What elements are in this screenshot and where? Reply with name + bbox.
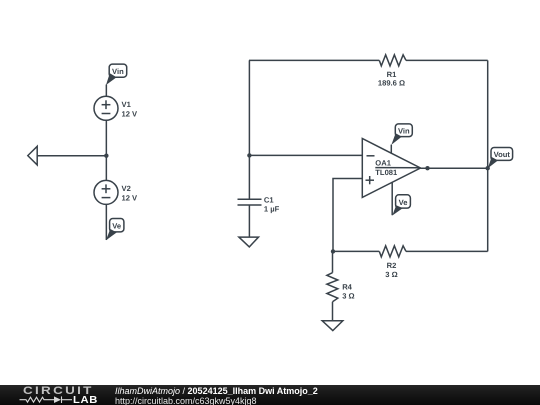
label OA1 name [375,159,398,178]
resistor R1 [379,55,406,66]
node junction left [104,154,108,158]
svg-text:Vout: Vout [494,150,511,159]
svg-text:OA1: OA1 [375,159,391,168]
wire op-amp output [421,167,488,169]
svg-text:Vin: Vin [398,126,410,135]
svg-text:12 V: 12 V [122,194,139,203]
node Vin flag (left) [106,64,127,85]
resistor R4 [327,273,338,302]
wire to inverting input [249,154,362,156]
svg-text:3 Ω: 3 Ω [385,270,397,279]
voltage source V2 [94,180,118,204]
resistor R2 [379,246,406,257]
svg-text:TL081: TL081 [375,168,398,177]
wire R4 to ground [332,302,334,321]
svg-text:12 V: 12 V [122,110,139,119]
footer url line [115,396,257,405]
CircuitLab logo text LAB [73,395,98,405]
svg-text:Vin: Vin [112,67,124,76]
op-amp V- supply pin [391,182,393,215]
label V2 value [122,184,139,203]
ground (R4) [322,321,343,331]
svg-text:R1: R1 [387,70,397,79]
label R1 value [378,70,405,88]
node Vin flag (op-amp supply) [391,124,412,145]
label C1 value [264,196,280,214]
wire junction to R4 [332,251,334,272]
svg-text:189.6 Ω: 189.6 Ω [378,79,405,88]
wire V1 to V2 [105,120,107,180]
svg-text:Ve: Ve [399,198,408,207]
wire right rail lower [487,168,489,251]
wire noninverting input [333,179,362,252]
wire left rail [248,60,250,199]
node Ve flag (left) [106,219,124,241]
label R4 value [342,282,354,300]
node output dot [425,166,429,170]
footer bar [0,385,540,405]
svg-text:V1: V1 [122,100,132,109]
ground (C1) [239,237,259,247]
capacitor C1 [238,199,262,205]
voltage source V1 [94,96,118,120]
wire top rail right segment [406,59,488,61]
node junction left rail [247,153,251,157]
label V1 value [122,100,139,119]
wire top rail left segment [249,59,379,61]
wire V2 to Ve [105,204,107,240]
svg-text:V2: V2 [122,184,131,193]
node Vout flag [488,148,513,169]
wire R2 to right rail [406,250,488,252]
antenna arrow symbol [28,146,37,165]
label R2 value [385,261,397,279]
wire Vin to V1 [105,85,107,97]
svg-text:C1: C1 [264,196,274,205]
op-amp OA1 [362,139,420,198]
footer credit line [115,386,318,396]
op-amp V+ supply pin [390,145,392,154]
wire junction to R2 [333,250,379,252]
svg-text:R4: R4 [342,282,352,291]
wire right rail upper [487,60,489,168]
node Vout junction [486,166,490,170]
node Ve flag (op-amp supply) [392,195,410,216]
svg-text:3 Ω: 3 Ω [342,291,354,300]
svg-text:R2: R2 [387,261,397,270]
CircuitLab logo text CIRCUIT [23,385,94,397]
node junction R2/R4 [331,249,335,253]
wire junction to arrow [37,155,107,157]
svg-text:Ve: Ve [112,222,121,231]
svg-text:1 µF: 1 µF [264,205,280,214]
wire C1 to ground [248,205,250,237]
